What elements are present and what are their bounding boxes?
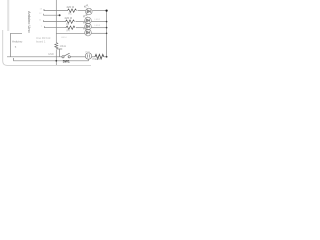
svg-text:board 1: board 1 xyxy=(36,40,46,44)
svg-text:Arduino Uno: Arduino Uno xyxy=(27,11,31,33)
svg-text:Arduino: Arduino xyxy=(12,40,23,44)
svg-text:220 Ω: 220 Ω xyxy=(65,16,73,20)
svg-text:PZ1: PZ1 xyxy=(86,51,91,54)
svg-text:10kΩ: 10kΩ xyxy=(60,44,66,48)
svg-text:LED3: LED3 xyxy=(95,25,101,27)
svg-text:LED4: LED4 xyxy=(61,37,67,39)
svg-text:SW1: SW1 xyxy=(63,59,70,63)
svg-text:GND: GND xyxy=(48,52,54,56)
svg-text:LED2: LED2 xyxy=(95,19,101,21)
svg-text:220 Ω: 220 Ω xyxy=(67,5,75,9)
svg-text:PIEZO: PIEZO xyxy=(93,57,101,61)
